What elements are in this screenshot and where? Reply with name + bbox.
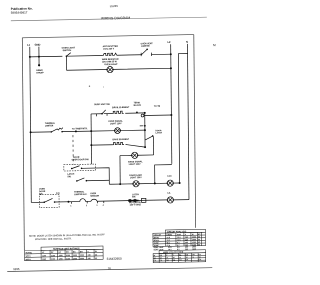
svg-text:SW.: SW.: [132, 196, 136, 198]
svg-text:GA: GA: [179, 258, 182, 261]
surface switch label: [94, 104, 110, 106]
svg-text:SW.: SW.: [39, 194, 43, 196]
lamp bake signal: [131, 152, 138, 158]
node GND label: [35, 43, 41, 47]
latch switch label: [67, 173, 74, 179]
svg-text:SW.: SW.: [67, 176, 71, 178]
svg-text:LOC: LOC: [167, 176, 172, 178]
junction surface row bus: [144, 112, 146, 114]
junction row2 L2: [170, 67, 172, 69]
box side label: [56, 193, 61, 195]
TB label block: [134, 102, 142, 107]
svg-text:3000: 3000: [80, 255, 84, 257]
svg-text:1250: 1250: [42, 259, 46, 261]
relay blade label: [155, 130, 162, 134]
svg-text:M: M: [213, 43, 216, 47]
wire GND stub: [38, 47, 40, 65]
svg-text:L1: L1: [27, 43, 31, 47]
node L1 label: [27, 43, 31, 47]
latch cluster label bottom: [129, 202, 141, 206]
lock signal label: [167, 176, 172, 178]
svg-text:MODEL: MODEL: [26, 252, 33, 254]
bake signal label: [128, 160, 143, 166]
svg-text:14: 14: [192, 256, 194, 259]
door switch box label: [72, 157, 90, 162]
junction TB tick: [144, 125, 146, 127]
lamp door signal: [132, 181, 139, 187]
svg-text:SENSOR: SENSOR: [90, 195, 99, 197]
junction latch vertical indicator row: [154, 182, 156, 184]
svg-text:LK.: LK.: [168, 193, 172, 195]
header title WIRING DIAGRAM: [101, 16, 131, 21]
thermal limiter label: [45, 122, 56, 128]
right upper table band: [165, 229, 205, 233]
right lower table texts: [154, 254, 202, 262]
frame right border: [194, 35, 196, 228]
part number: [107, 257, 122, 261]
surface row tick 1: [95, 114, 97, 117]
scan speck 2: [103, 86, 104, 87]
svg-text:3000: 3000: [80, 258, 84, 260]
anti sputter label above: [103, 45, 119, 51]
resistor broil element: [112, 111, 124, 113]
lamp oven light: [106, 66, 113, 72]
junction L1 row1: [29, 56, 31, 58]
right upper band text: [167, 230, 187, 233]
svg-text:SWITCH: SWITCH: [63, 50, 72, 52]
oven light switch label: [62, 47, 76, 52]
lock motor label: [168, 193, 172, 195]
footer page number: [108, 266, 112, 270]
header rule: [11, 17, 207, 21]
junction link right: [170, 114, 172, 116]
svg-text:L2: L2: [167, 40, 171, 44]
TB right label: [154, 106, 161, 108]
svg-text:5995449917: 5995449917: [11, 10, 28, 14]
svg-text:1: 1: [70, 205, 71, 207]
bake element label: [112, 138, 129, 141]
wire row2 lamp line: [67, 68, 171, 70]
svg-text:2100: 2100: [51, 255, 55, 257]
junction mid bus indicator row: [119, 183, 121, 185]
junction row1 L2: [170, 53, 172, 55]
footer rule: [7, 268, 212, 272]
wire center bus: [90, 114, 92, 164]
tap label: [72, 128, 88, 130]
svg-text:GA: GA: [186, 258, 189, 261]
oven door switch box: [64, 164, 96, 171]
lower door switch: [43, 198, 55, 203]
svg-text:OVEN LIGHT: OVEN LIGHT: [104, 64, 118, 66]
svg-text:46.1: 46.1: [166, 241, 170, 244]
right upper table grid: [153, 232, 206, 246]
right lower table band: [159, 250, 206, 254]
svg-text:OVEN DOOR SW.: OVEN DOOR SW.: [72, 159, 90, 161]
svg-text:2600: 2600: [73, 258, 77, 260]
thermal fuse bump 1: [80, 199, 86, 202]
svg-text:240: 240: [185, 236, 188, 239]
terminal tick labels: [70, 204, 104, 208]
svg-text:GA: GA: [173, 258, 176, 261]
left table header band: [41, 246, 103, 250]
svg-text:LIGHT 120V: LIGHT 120V: [110, 123, 122, 125]
junction hook bottom: [179, 182, 181, 184]
resistor anti sputter coil: [102, 53, 117, 55]
junction GND row1: [38, 56, 40, 58]
svg-text:WFF3: WFF3: [26, 256, 31, 258]
svg-text:240: 240: [88, 257, 91, 260]
footer page code: [13, 267, 20, 271]
bump2 label: [90, 193, 99, 198]
junction surface row pre-bus: [136, 112, 138, 114]
svg-text:2100: 2100: [66, 258, 70, 260]
node N label: [186, 40, 188, 44]
svg-text:AMP: AMP: [177, 233, 182, 236]
wire latch switch output: [86, 179, 109, 181]
svg-text:GA: GA: [166, 259, 169, 262]
right upper table texts: [154, 233, 202, 247]
svg-text:3: 3: [96, 205, 97, 207]
left table header text: [53, 247, 80, 251]
lamp lock signal: [166, 180, 173, 186]
wire switch drop: [65, 56, 67, 70]
left table grid: [25, 249, 104, 260]
wire L2 corner: [155, 165, 172, 184]
svg-text:2100: 2100: [51, 259, 55, 261]
junction signal row bus: [144, 129, 146, 131]
svg-text:W: W: [95, 251, 97, 253]
thermal fuse bump 2: [91, 199, 97, 201]
svg-text:L5V25: L5V25: [110, 4, 119, 8]
frame top border: [22, 35, 194, 38]
svg-text:TO TIMER MTR.: TO TIMER MTR.: [72, 128, 88, 130]
svg-text:4: 4: [103, 204, 105, 207]
ground terminal blob: [38, 64, 40, 66]
svg-text:LIMITER: LIMITER: [45, 125, 54, 127]
switch oven light switch: [66, 53, 71, 57]
svg-text:SURF. UNIT SW.: SURF. UNIT SW.: [94, 104, 110, 106]
svg-text:BAKE: BAKE: [154, 236, 160, 239]
svg-text:POSITION. SEE INSTALL. INSTR.: POSITION. SEE INSTALL. INSTR.: [35, 237, 72, 241]
svg-text:COIL 240 V: COIL 240 V: [103, 47, 115, 50]
svg-text:60: 60: [198, 244, 200, 246]
motor symbol: [141, 114, 144, 117]
svg-text:240: 240: [185, 241, 188, 244]
svg-text:2: 2: [86, 205, 87, 207]
svg-text:BROIL ELEMENT: BROIL ELEMENT: [112, 107, 130, 109]
door linkage dashes: [72, 135, 74, 164]
svg-text:GA: GA: [154, 259, 157, 262]
svg-text:STRAP: STRAP: [36, 71, 44, 74]
svg-text:40: 40: [95, 253, 97, 256]
svg-text:LIMITER: LIMITER: [141, 46, 150, 48]
svg-text:1250: 1250: [42, 255, 46, 257]
svg-text:WFF4: WFF4: [26, 258, 31, 261]
thermal breaker TOD: [141, 48, 151, 56]
wire surface unit row: [91, 113, 145, 114]
wire row3 feed from L1: [31, 131, 92, 132]
wire door switch A output: [82, 168, 110, 185]
svg-text:2600: 2600: [73, 255, 77, 257]
oven door switch lower box: [40, 194, 60, 207]
oven signal light label: [108, 120, 123, 126]
svg-text:GA: GA: [160, 259, 163, 262]
svg-text:LIGHT 120V: LIGHT 120V: [130, 177, 142, 179]
lamp oven signal light: [114, 128, 121, 134]
door signal label: [129, 174, 142, 180]
wire row1 oven light circuit: [30, 54, 171, 57]
svg-text:8.1: 8.1: [177, 249, 180, 251]
scan speck 1: [89, 86, 90, 87]
wire L2 bus: [171, 44, 172, 164]
junction bake row bus left: [90, 144, 92, 146]
surface row tick 2: [106, 114, 108, 116]
wire row bake element: [91, 144, 145, 148]
ground strap label: [36, 70, 44, 75]
right table footnote rows: [154, 245, 197, 251]
latch cluster: [129, 198, 146, 202]
broil element label: [112, 107, 130, 109]
header publication number: [11, 6, 33, 14]
right lower band text: [163, 252, 184, 254]
junction tap row3: [75, 130, 77, 132]
svg-text:1250: 1250: [59, 258, 63, 260]
svg-text:18.2: 18.2: [168, 249, 172, 251]
note text: [29, 233, 106, 241]
latch cluster label top: [132, 193, 139, 198]
svg-text:316432950: 316432950: [107, 257, 122, 261]
svg-text:BLOCK: BLOCK: [134, 105, 142, 107]
wire right bus TB: [144, 113, 146, 147]
svg-text:BAKE ELEMENT: BAKE ELEMENT: [112, 138, 129, 141]
node L2 label: [167, 40, 171, 44]
svg-text:TO TB: TO TB: [154, 106, 161, 108]
wire indicator row: [109, 183, 179, 184]
wire bottom row: [31, 199, 189, 202]
relay blade: [145, 135, 154, 140]
wire N bus: [187, 44, 188, 200]
wire bake lamp row: [120, 154, 154, 157]
resistor bake element: [113, 142, 125, 144]
wire N branch hook: [178, 53, 188, 182]
junction bake row bus right: [144, 146, 146, 148]
svg-text:1800: 1800: [192, 249, 196, 251]
svg-text:120 V 60HZ: 120 V 60HZ: [130, 204, 142, 206]
wire link row: [144, 114, 171, 117]
svg-text:1250: 1250: [59, 255, 63, 257]
junction bus row3: [90, 130, 92, 132]
anti sputter label below: [102, 59, 119, 64]
junction sensor row: [67, 201, 69, 203]
frame left border: [22, 38, 24, 251]
svg-text:76: 76: [108, 266, 112, 270]
wire mid bus down: [119, 156, 121, 185]
svg-text:N: N: [186, 40, 188, 44]
thermal limiter switch: [50, 128, 62, 133]
right lower table grid: [153, 253, 206, 263]
door switch A: [71, 166, 82, 170]
TB left tick: [140, 125, 144, 127]
wire latch vertical: [152, 136, 154, 155]
switch surface unit switch: [101, 110, 106, 115]
svg-text:5995: 5995: [13, 267, 20, 271]
page mark top right: [213, 43, 216, 47]
latch switch B: [76, 178, 87, 182]
svg-text:40: 40: [95, 257, 97, 260]
svg-text:2100: 2100: [66, 255, 70, 257]
junction L1 row3: [30, 131, 32, 133]
wire row3 to signal lamp: [91, 130, 145, 131]
svg-text:240: 240: [185, 238, 188, 241]
thermal breaker label: [141, 43, 154, 48]
terminal ticks: [72, 201, 104, 204]
oven light label: [104, 64, 118, 66]
svg-text:240: 240: [88, 254, 91, 257]
svg-text:LIMITER N.C.: LIMITER N.C.: [74, 194, 88, 196]
lamp lock motor light: [167, 197, 174, 203]
svg-text:N.O.: N.O.: [56, 193, 61, 195]
wire L1 bus: [30, 47, 31, 203]
svg-text:GND: GND: [35, 43, 41, 47]
bump1 label: [74, 190, 88, 196]
svg-text:WIRING DIAGRAM: WIRING DIAGRAM: [101, 16, 131, 21]
svg-text:LATCH: LATCH: [155, 131, 162, 134]
svg-text:LIGHT 120V: LIGHT 120V: [129, 164, 141, 166]
left table texts: [26, 251, 98, 261]
lower door switch label: [39, 188, 46, 195]
header model code: [110, 4, 119, 8]
svg-text:GA: GA: [199, 258, 202, 261]
